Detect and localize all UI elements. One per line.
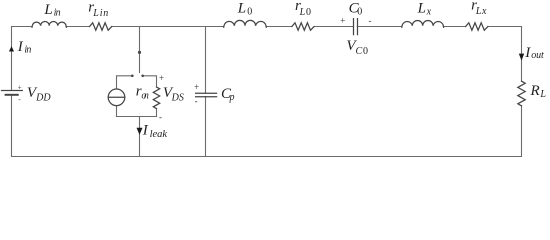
svg-text:L: L bbox=[43, 2, 52, 18]
svg-text:+: + bbox=[194, 82, 199, 92]
svg-text:L: L bbox=[299, 7, 306, 18]
svg-text:I: I bbox=[17, 39, 24, 55]
svg-text:+: + bbox=[159, 73, 164, 83]
svg-text:DS: DS bbox=[171, 92, 184, 103]
svg-text:-: - bbox=[369, 15, 372, 25]
svg-text:p: p bbox=[229, 92, 235, 103]
svg-text:L: L bbox=[539, 89, 546, 100]
svg-text:in: in bbox=[54, 8, 61, 19]
svg-text:out: out bbox=[531, 50, 544, 61]
svg-text:I: I bbox=[142, 123, 149, 139]
svg-text:DD: DD bbox=[35, 92, 51, 103]
svg-text:C: C bbox=[356, 46, 363, 57]
svg-text:0: 0 bbox=[357, 6, 362, 17]
svg-text:on: on bbox=[141, 90, 149, 101]
svg-text:Lin: Lin bbox=[92, 8, 108, 19]
svg-text:0: 0 bbox=[247, 6, 252, 17]
svg-text:-: - bbox=[159, 112, 162, 122]
svg-text:+: + bbox=[340, 15, 345, 25]
svg-text:L: L bbox=[417, 1, 426, 17]
svg-text:in: in bbox=[24, 44, 31, 55]
svg-text:Lx: Lx bbox=[475, 6, 487, 17]
svg-text:x: x bbox=[426, 6, 432, 17]
svg-text:R: R bbox=[530, 83, 540, 99]
svg-text:+: + bbox=[18, 83, 22, 91]
svg-text:0: 0 bbox=[363, 46, 368, 57]
svg-text:-: - bbox=[18, 95, 21, 103]
svg-text:0: 0 bbox=[306, 7, 311, 18]
svg-text:-: - bbox=[195, 96, 198, 106]
svg-text:I: I bbox=[524, 45, 531, 61]
svg-text:L: L bbox=[237, 0, 246, 16]
svg-text:leak: leak bbox=[150, 129, 168, 140]
